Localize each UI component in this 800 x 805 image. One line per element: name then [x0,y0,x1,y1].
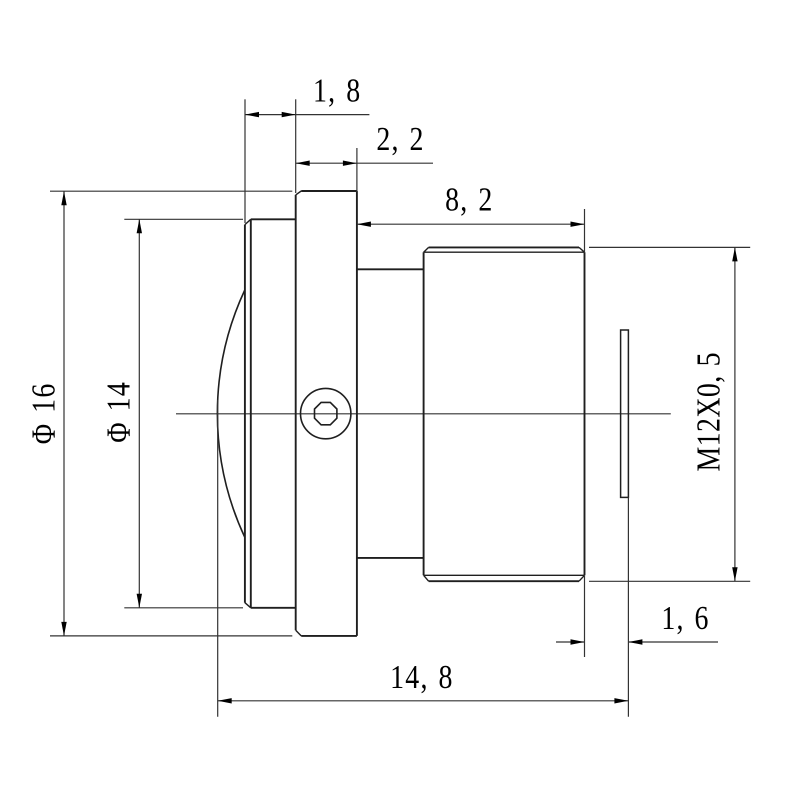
neck bottom edge [357,557,424,559]
flange chamfer bottom [296,630,302,636]
flange bottom edge [301,635,357,637]
dim 1,6 line right tail [628,641,718,643]
flange back face [356,191,358,636]
barrel chamfer bottom-left [424,575,429,581]
dim 14,8 ext line right [627,497,629,716]
dim M12 line [734,247,736,581]
dim 8,2 ext line right [584,209,586,252]
dim phi14 line [138,219,140,608]
dim phi16 line [63,191,65,636]
barrel front face [423,252,425,575]
dim 1,6 line left tail [556,641,585,643]
dim phi16 arrow top [61,191,66,205]
ring silhouette edge [250,219,252,608]
dim 8,2 arrow right [571,222,585,227]
dim M12 arrow top [732,247,737,261]
svg-text:8, 2: 8, 2 [445,180,493,218]
dim 14,8 line [218,700,629,702]
svg-text:1, 8: 1, 8 [313,71,361,109]
set screw inner socket [315,402,337,424]
dim phi14 ext line bottom [124,607,243,609]
svg-text:Φ 14: Φ 14 [99,381,137,443]
dim 1,6 ext line left [584,575,586,657]
dim 2,2 ext line right [356,148,358,192]
svg-text:14, 8: 14, 8 [390,657,454,695]
dim M12 ext line bottom [589,580,750,582]
thread root top [424,251,585,253]
dim phi16 ext line bottom [50,635,292,637]
dim M12 ext line top [589,246,750,248]
neck top edge [357,268,424,270]
thread crest top [429,246,579,248]
dim phi14 arrow top [137,219,142,233]
barrel back face [584,252,586,575]
set screw outer circle [301,388,351,438]
svg-text:1, 6: 1, 6 [661,598,709,636]
flange chamfer top [296,191,302,195]
thread crest bottom [429,580,579,582]
dim M12 arrow bottom [732,567,737,581]
dim 8,2 arrow left [357,222,371,227]
barrel chamfer top-left [424,247,429,252]
retaining ring front face [244,225,246,603]
dim 14,8 ext line left [217,400,219,717]
ring bottom edge [251,607,296,609]
dim phi16 ext line top [50,190,292,192]
dim 14,8 arrow left [218,698,232,703]
dim 8,2 line [357,223,585,225]
svg-text:M12X0, 5: M12X0, 5 [689,352,727,472]
rear plate (filter) [621,330,629,497]
dim phi16 arrow bottom [61,622,66,636]
dim 1,8 arrow right [282,112,296,117]
dim 1,8 line [245,114,369,116]
flange front face [295,195,297,630]
svg-text:Φ 16: Φ 16 [24,383,62,445]
dim phi14 ext line top [124,218,243,220]
barrel chamfer bottom-right [579,575,585,581]
dim 1,8 arrow left [245,112,259,117]
dim phi14 arrow bottom [137,594,142,608]
dim 14,8 arrow right [614,698,628,703]
barrel chamfer top-right [579,247,585,252]
dim 2,2 arrow right [343,161,357,166]
thread root bottom [424,574,585,576]
lens dome (front glass arc) [217,290,244,537]
dim 1,6 arrow left [571,639,585,644]
dim 1,8 ext line right [295,99,297,193]
ring chamfer top [245,219,251,224]
centerline [176,413,671,415]
flange top edge [301,190,357,192]
ring top edge [251,218,296,220]
dim 2,2 arrow left [296,161,310,166]
ring chamfer bottom [245,603,251,608]
dim 1,8 ext line left [244,99,246,223]
dim 2,2 line [296,162,433,164]
dim 1,6 arrow right [628,639,642,644]
svg-text:2, 2: 2, 2 [376,119,424,157]
